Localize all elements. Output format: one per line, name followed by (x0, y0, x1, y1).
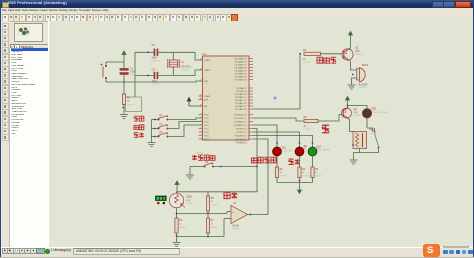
resistor R9 (304, 119, 318, 122)
relay RL1 switch (374, 128, 380, 148)
junction buzzer net top (299, 53, 301, 55)
svg-text:P0.1/AD1: P0.1/AD1 (235, 60, 245, 63)
svg-text:<TEXT>: <TEXT> (370, 132, 379, 135)
D6 reference label (373, 108, 377, 111)
node pin dot C2 left (147, 51, 149, 53)
wire Q1 collector to buzzer (350, 61, 357, 71)
R7 reference label (211, 219, 215, 222)
svg-text:XTAL1: XTAL1 (204, 59, 211, 62)
svg-text:R7: R7 (211, 219, 215, 222)
ground arrow LED rail (298, 183, 302, 194)
junction dot R4 bottom (299, 180, 301, 182)
PIR button K4 (203, 163, 214, 168)
svg-text:<TEXT>: <TEXT> (186, 202, 195, 205)
junction dot D1 top (276, 142, 278, 144)
wire R4 to rail (299, 178, 301, 183)
junction dot button K3 (154, 136, 156, 138)
P L buttons + DEVICES header (10, 44, 16, 50)
R8 value label 1k (211, 201, 220, 206)
wire RST node down to R1 (123, 82, 125, 94)
wire button K3 to P1.3 (169, 125, 203, 137)
svg-text:1k: 1k (179, 224, 182, 226)
svg-text:<TEXT>: <TEXT> (359, 86, 368, 89)
wire buttons common rail (151, 120, 153, 143)
svg-text:LDR1: LDR1 (186, 196, 193, 199)
LDR1 reference label (186, 196, 193, 199)
wire C2 to XTAL1 (158, 52, 202, 60)
preview pane (14, 23, 43, 42)
svg-text:P3.0/RXD: P3.0/RXD (234, 114, 244, 116)
svg-text:R5: R5 (315, 169, 319, 171)
button K3 (157, 133, 168, 138)
wire reset button top (106, 62, 107, 66)
svg-text:P3.3/INT1: P3.3/INT1 (234, 125, 244, 127)
wire VCC to C1 top node (123, 59, 125, 69)
U1 left pin names (204, 59, 211, 141)
origin marker cross (273, 96, 277, 100)
R2 reference label (303, 49, 307, 52)
svg-text:10uF: 10uF (130, 72, 136, 74)
buzzer BUZ1 (357, 68, 365, 82)
svg-text:U2: U2 (233, 202, 237, 205)
power VCC arrow LDR (175, 181, 179, 189)
LED D6 yellow (362, 107, 373, 118)
svg-text:1k: 1k (280, 172, 283, 174)
svg-text:P2.6/A14: P2.6/A14 (235, 105, 244, 108)
button K1 (157, 116, 168, 121)
wire relay bottoms to ground (354, 149, 379, 160)
Q2 reference label (354, 108, 358, 111)
wire C3 to XTAL2 (158, 70, 202, 76)
R5 reference label (315, 169, 319, 171)
wire op-amp output to P3.7 (253, 139, 268, 215)
wire PIR vertical to P1.4 row (253, 129, 257, 193)
Q1 reference label (355, 46, 359, 49)
svg-text:<TEXT>: <TEXT> (211, 226, 220, 229)
svg-text:P3.1/TXD: P3.1/TXD (234, 118, 244, 120)
svg-text:LED-YELLOW: LED-YELLOW (373, 112, 388, 114)
svg-text:P3.4/T0: P3.4/T0 (236, 128, 244, 130)
svg-text:P0.7/AD7: P0.7/AD7 (235, 78, 245, 81)
junction dot buzzer (352, 74, 354, 76)
svg-text:LED-RED: LED-RED (284, 151, 294, 153)
svg-text:<TEXT>: <TEXT> (179, 226, 188, 229)
capacitor C2 (154, 49, 158, 56)
svg-text:R6: R6 (179, 219, 183, 222)
R6 value label 1k (179, 224, 188, 229)
junction VCC node Q2 (347, 105, 349, 107)
label 光敏 photosensitive (224, 192, 237, 198)
wire xtal ground rail vertical (134, 52, 136, 97)
resistor R2 (304, 52, 321, 55)
device list (9, 48, 48, 247)
title bar (0, 0, 474, 8)
watermark (423, 244, 440, 257)
D1 value label LED-RED (284, 151, 294, 153)
X1 value label CRYSTAL (181, 66, 192, 72)
power arrow EA pin (187, 98, 191, 107)
junction dot button K1 (154, 119, 156, 121)
svg-text:RST: RST (204, 81, 209, 83)
svg-text:P0.2/AD2: P0.2/AD2 (235, 63, 245, 66)
D1 reference label (284, 148, 288, 150)
svg-text:PNP: PNP (355, 51, 360, 53)
ground below relay (350, 160, 358, 164)
junction dot LDR mid (176, 213, 178, 215)
wire U1 to LED D3 (253, 136, 313, 148)
C2 value label 30pF (152, 57, 161, 63)
svg-text:BUZZER: BUZZER (359, 84, 369, 86)
window edges (0, 0, 1, 258)
wire R6 top (176, 214, 178, 219)
C3 value label 30pF (152, 80, 161, 86)
svg-text:P2.3/A11: P2.3/A11 (235, 96, 244, 99)
junction dot D2 top (299, 142, 301, 144)
resistor R4 (298, 167, 301, 178)
wire P3.1 to lamp net (253, 118, 304, 121)
LDR LDR1 (169, 193, 185, 207)
svg-text:P0.6/AD6: P0.6/AD6 (235, 75, 245, 78)
svg-text:C3: C3 (152, 67, 156, 71)
wire U1 to LED D1 (253, 125, 277, 147)
ground below buzzer (348, 85, 356, 89)
wire Q1 emitter to VCC (350, 40, 351, 49)
wire R1 to ground (123, 105, 125, 115)
bottom bar (0, 247, 474, 258)
wire LED to resistor R3 (276, 156, 278, 167)
junction dot relay coil (352, 144, 354, 146)
wire left rail to button K2 (152, 128, 158, 130)
U1 right pin names (234, 57, 244, 140)
D3 value label LED-GREEN (318, 150, 331, 152)
C1 reference label (130, 67, 134, 70)
wire left rail to button K3 (152, 136, 158, 138)
svg-text:P3.5/T1: P3.5/T1 (236, 132, 244, 134)
svg-text:P2.0/A8: P2.0/A8 (236, 87, 244, 90)
svg-text:1k: 1k (304, 126, 307, 128)
R6 reference label (179, 219, 183, 222)
junction PIR node (256, 166, 258, 168)
junction dot D3 top (312, 142, 314, 144)
K1 reference label (160, 115, 164, 117)
svg-text:1k: 1k (315, 172, 318, 174)
svg-text:Q2: Q2 (354, 108, 358, 111)
reset button K0 (101, 64, 107, 79)
power VCC arrow reset (122, 51, 126, 59)
K2 reference label (160, 124, 164, 126)
svg-text:R3: R3 (280, 169, 284, 171)
wire button K2 to P1.2 (169, 122, 203, 129)
wire R9 to Q2 base (318, 115, 342, 122)
svg-text:1k: 1k (303, 59, 306, 61)
menu bar (0, 8, 474, 15)
svg-text:LED-GREEN: LED-GREEN (318, 150, 331, 152)
U1 reference label (203, 52, 207, 56)
svg-text:<TEXT>: <TEXT> (280, 175, 289, 178)
transistor Q2 PNP (342, 108, 352, 119)
svg-text:C2: C2 (152, 43, 156, 47)
wire RST node to chip RST (124, 81, 203, 82)
LED D1 (273, 146, 284, 156)
wire PIR button right to node (214, 166, 257, 168)
ground bottom divider (173, 243, 181, 247)
R3 value label 1k (280, 172, 289, 177)
svg-text:D1: D1 (284, 148, 288, 150)
wire divider rail to PIR vertical (208, 191, 257, 193)
R1 value label 1k (127, 101, 136, 106)
svg-text:LM358: LM358 (232, 226, 240, 228)
label 灯 lamp (322, 125, 329, 133)
Q2 value label PNP (354, 112, 363, 117)
svg-text:PNP: PNP (354, 112, 359, 114)
svg-text:1k: 1k (211, 224, 214, 226)
wire Q2 emitter to VCC (347, 105, 350, 108)
wire buzzer bottom to ground (352, 78, 357, 85)
wire R8 top (207, 192, 209, 196)
resistor R6 (175, 218, 178, 233)
wire LDR top (176, 192, 178, 194)
R3 reference label (280, 169, 284, 171)
svg-text:P2.2/A10: P2.2/A10 (235, 93, 244, 96)
U1 right pin numbers (244, 58, 247, 140)
U1 unconnected P1 pin stubs (199, 115, 203, 140)
svg-text:PSEN: PSEN (204, 96, 210, 98)
R9 reference label (304, 116, 308, 119)
svg-text:<TEXT>: <TEXT> (302, 175, 311, 178)
wire U1 to LED D2 (253, 132, 300, 147)
node pin dot R1 bottom (122, 107, 124, 109)
R4 reference label (302, 169, 306, 171)
wire left rail to button K1 (152, 119, 158, 121)
svg-text:<TEXT>: <TEXT> (130, 73, 139, 76)
wire LED to resistor R5 (312, 156, 314, 167)
junction dot R7 bottom (207, 236, 209, 238)
svg-text:P2.1/A9: P2.1/A9 (236, 90, 244, 93)
LDR interactive display (155, 196, 166, 205)
svg-text:<TEXT>: <TEXT> (315, 175, 324, 178)
X1 reference label (181, 61, 185, 64)
svg-text:AT89C51: AT89C51 (236, 141, 247, 145)
op-amp U2 LM358 (231, 206, 248, 224)
svg-text:BUZ1: BUZ1 (362, 64, 369, 67)
svg-text:<TEXT>: <TEXT> (304, 128, 313, 131)
wire reset button bottom (106, 78, 124, 82)
K4 reference label (206, 162, 210, 164)
wire EA arrow to chip EA (189, 105, 203, 107)
wire mid rail to op-amp (177, 212, 232, 214)
resistor R1 (122, 94, 125, 105)
R7 value label 1k (211, 224, 220, 229)
wire VCC to LED D6 (348, 106, 368, 109)
D3 reference label (318, 147, 322, 149)
window buttons (432, 1, 444, 8)
U1 value label AT89C51 (236, 141, 247, 145)
svg-text:1k: 1k (211, 201, 214, 203)
wire bottom rail (177, 219, 232, 237)
power VCC arrow Q2 (346, 97, 350, 105)
left icon column (0, 21, 9, 248)
U1 left pin numbers (200, 59, 203, 140)
svg-text:R9: R9 (304, 116, 308, 119)
junction dot R8 bottom (207, 213, 209, 215)
wire R8 bottom to mid rail (207, 211, 209, 214)
ground below PIR button (186, 175, 194, 179)
wire PIR button left to ground (190, 167, 203, 175)
U2 reference label (233, 202, 237, 205)
U1 PSEN ALE stubs (199, 96, 203, 100)
svg-text:D3: D3 (318, 147, 322, 149)
wire VCC to divider top rail (176, 189, 178, 193)
label 布防 deploy 2 (289, 159, 300, 165)
MCU U1 AT89C51 body (203, 56, 250, 140)
svg-text:<TEXT>: <TEXT> (211, 203, 220, 206)
U2 value label LM358 (232, 226, 241, 231)
svg-text:LDR: LDR (186, 200, 191, 202)
U1 right pin stubs (249, 59, 253, 140)
BUZ1 reference label (362, 64, 369, 67)
wire crystal bottom (172, 67, 174, 76)
svg-text:P2.4/A12: P2.4/A12 (235, 99, 244, 102)
label text above PIR (195, 151, 204, 154)
svg-text:1k: 1k (127, 101, 130, 103)
svg-text:-: - (232, 217, 233, 221)
svg-text:30pF: 30pF (152, 57, 158, 60)
svg-text:<TEXT>: <TEXT> (355, 53, 364, 56)
svg-text:<TEXT>: <TEXT> (181, 68, 190, 71)
wire C2 left to ground rail (135, 51, 154, 53)
svg-text:<TEXT>: <TEXT> (232, 228, 241, 231)
toolbar (0, 13, 474, 22)
ground below buttons (148, 143, 156, 147)
svg-text:<TEXT>: <TEXT> (152, 83, 161, 86)
wire crystal top (172, 52, 174, 60)
svg-text:P3.7/RD: P3.7/RD (236, 139, 244, 141)
wire reset top rail (107, 61, 124, 63)
junction dot button K2 (154, 128, 156, 130)
ground below R1 (120, 115, 128, 119)
K3 reference label (160, 132, 164, 134)
svg-text:P0.3/AD3: P0.3/AD3 (235, 66, 245, 69)
svg-text:R2: R2 (303, 49, 307, 52)
label 自动 auto (134, 125, 144, 130)
junction dot PIR wire (220, 166, 222, 168)
svg-text:C1: C1 (130, 67, 134, 70)
button K2 (157, 125, 168, 130)
svg-text:D2: D2 (304, 146, 308, 148)
panel/schematic divider (48, 21, 53, 248)
node pin dot C3 left (147, 75, 149, 77)
wire C3 left to ground rail (135, 75, 154, 77)
svg-text:K4: K4 (206, 162, 210, 164)
wire Q2 collector to relay coil (348, 119, 356, 132)
wire R7 top (207, 214, 209, 219)
label 手动 manual (134, 116, 144, 121)
junction dot R6 bottom (176, 235, 178, 237)
wire buzzer net vertical (299, 54, 301, 109)
C3 reference label (152, 67, 156, 71)
svg-text:P0.0/AD0: P0.0/AD0 (235, 57, 245, 60)
resistor R8 (206, 196, 209, 211)
wire R3 to rail (276, 178, 278, 183)
D6 value label LED-YELLOW (373, 112, 388, 114)
svg-text:Q1: Q1 (355, 46, 359, 49)
svg-text:D6: D6 (373, 108, 377, 111)
capacitor C3 (154, 72, 158, 79)
wire D6 cathode down (367, 118, 373, 132)
svg-text:P0.5/AD5: P0.5/AD5 (235, 72, 245, 75)
relay RL1 coil (353, 132, 367, 149)
label 布防 deploy (134, 133, 144, 138)
R4 value label 1k (302, 172, 311, 177)
R5 value label 1k (315, 172, 324, 177)
svg-text:R8: R8 (211, 197, 215, 200)
svg-text:U1: U1 (203, 52, 207, 56)
wire R5 to rail (312, 178, 314, 183)
svg-text:ALE: ALE (204, 98, 209, 101)
BUZ1 value label BUZZER (359, 84, 369, 89)
RL1 value label (370, 132, 379, 135)
LED D2 (295, 146, 306, 156)
wire button K1 to P1.1 (169, 118, 203, 120)
resistor R7 (206, 218, 209, 233)
wire P2.7 to buzzer net (253, 108, 300, 110)
graphics box around R1 labels (126, 97, 142, 112)
svg-text:CRYSTAL: CRYSTAL (181, 66, 192, 69)
schematic canvas (50, 21, 474, 248)
C2 reference label (152, 43, 156, 47)
label 蜂鸣器 buzzer text (317, 57, 336, 63)
junction dot op-amp output (250, 214, 252, 216)
resistor R3 (275, 167, 278, 178)
power VCC arrow Q1 (349, 32, 353, 40)
resistor R5 (311, 167, 314, 178)
svg-text:XTAL2: XTAL2 (204, 69, 211, 72)
svg-text:P2.5/A13: P2.5/A13 (235, 102, 244, 105)
svg-text:X1: X1 (181, 61, 185, 64)
wire LED ground rail (277, 182, 313, 184)
svg-text:P3.6/WR: P3.6/WR (235, 135, 244, 137)
RL1 reference label (370, 129, 375, 132)
R9 value label 1k (304, 126, 313, 131)
C1 value label 10uF (130, 72, 139, 77)
svg-text:P3.2/INT0: P3.2/INT0 (234, 121, 244, 123)
wire R2 to Q1 base (321, 53, 343, 55)
transistor Q1 PNP (342, 49, 353, 61)
svg-text:<TEXT>: <TEXT> (195, 151, 204, 154)
wire C1 bottom to RST node (123, 75, 125, 82)
svg-text:<TEXT>: <TEXT> (152, 59, 161, 62)
Q1 value label PNP (355, 51, 364, 56)
svg-text:P0.4/AD4: P0.4/AD4 (235, 69, 245, 72)
wire op-amp output (248, 214, 269, 216)
wire LDR bottom to mid rail (176, 208, 178, 214)
capacitor C1 electrolytic (120, 68, 129, 74)
label 自动手动 auto manual (251, 157, 276, 163)
R1 reference label (127, 97, 131, 100)
LDR1 value label LDR (186, 200, 195, 205)
wire LED to resistor R4 (299, 156, 301, 167)
wire ground stem bottom (176, 237, 178, 243)
D2 reference label (304, 146, 308, 148)
svg-text:<TEXT>: <TEXT> (354, 114, 363, 117)
svg-text:R4: R4 (302, 169, 306, 171)
svg-text:<TEXT>: <TEXT> (127, 103, 136, 106)
svg-text:1k: 1k (302, 172, 305, 174)
R8 reference label (211, 197, 215, 200)
R2 value label 1k (303, 59, 312, 64)
junction RST node (123, 81, 125, 83)
wire divider top rail (177, 191, 208, 193)
